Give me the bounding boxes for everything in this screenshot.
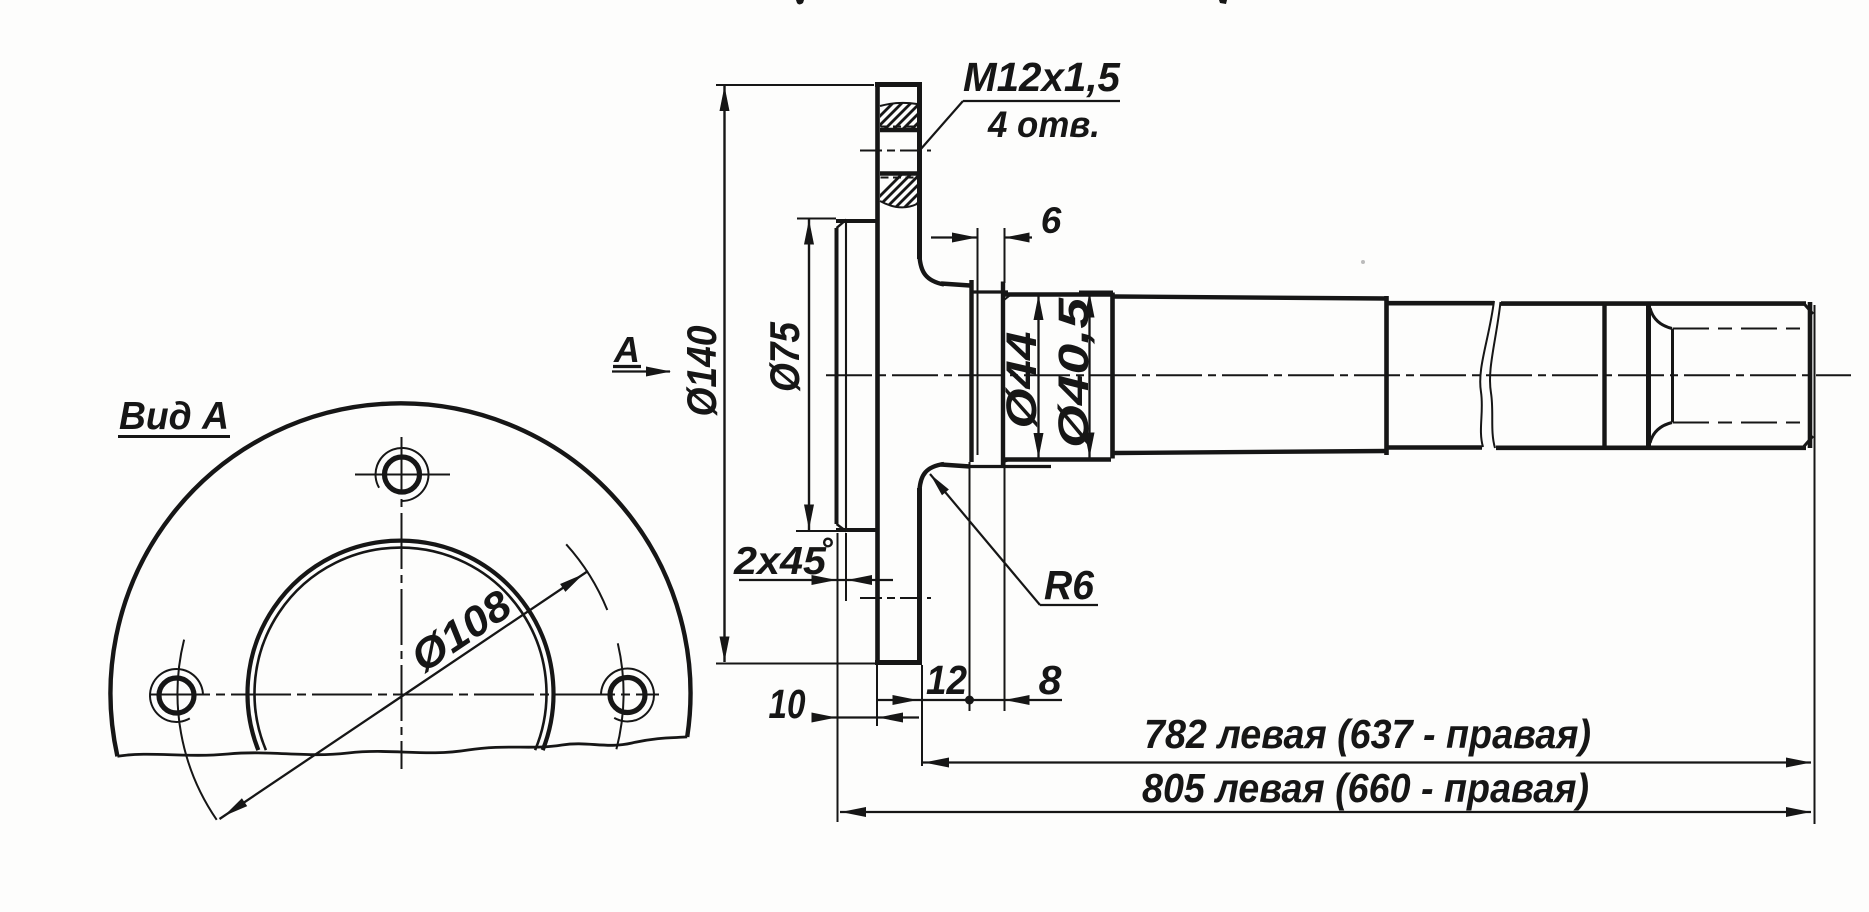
svg-text:6: 6 [1041,200,1062,241]
svg-text:4 отв.: 4 отв. [987,104,1100,145]
svg-text:°: ° [820,531,833,567]
svg-text:R6: R6 [1044,562,1095,608]
svg-text:12: 12 [926,657,967,703]
svg-text:Ø75: Ø75 [761,321,808,392]
svg-text:Ø140: Ø140 [678,326,725,417]
svg-text:Ø40,5: Ø40,5 [1050,297,1098,448]
svg-text:A: A [613,329,640,370]
svg-text:782 левая (637 - правая): 782 левая (637 - правая) [1144,711,1591,757]
svg-text:Ø44: Ø44 [998,331,1046,428]
svg-text:M12x1,5: M12x1,5 [963,54,1121,100]
svg-text:10: 10 [769,681,806,727]
svg-text:Вид А: Вид А [119,395,229,438]
svg-text:8: 8 [1039,657,1062,703]
svg-text:805 левая (660 - правая): 805 левая (660 - правая) [1142,765,1589,811]
